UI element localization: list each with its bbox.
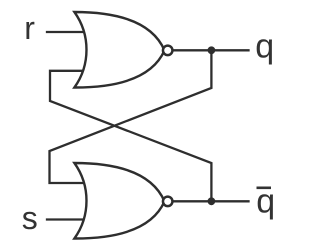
svg-text:r: r: [24, 10, 35, 46]
svg-text:q: q: [255, 27, 274, 65]
svg-text:s: s: [22, 200, 38, 236]
